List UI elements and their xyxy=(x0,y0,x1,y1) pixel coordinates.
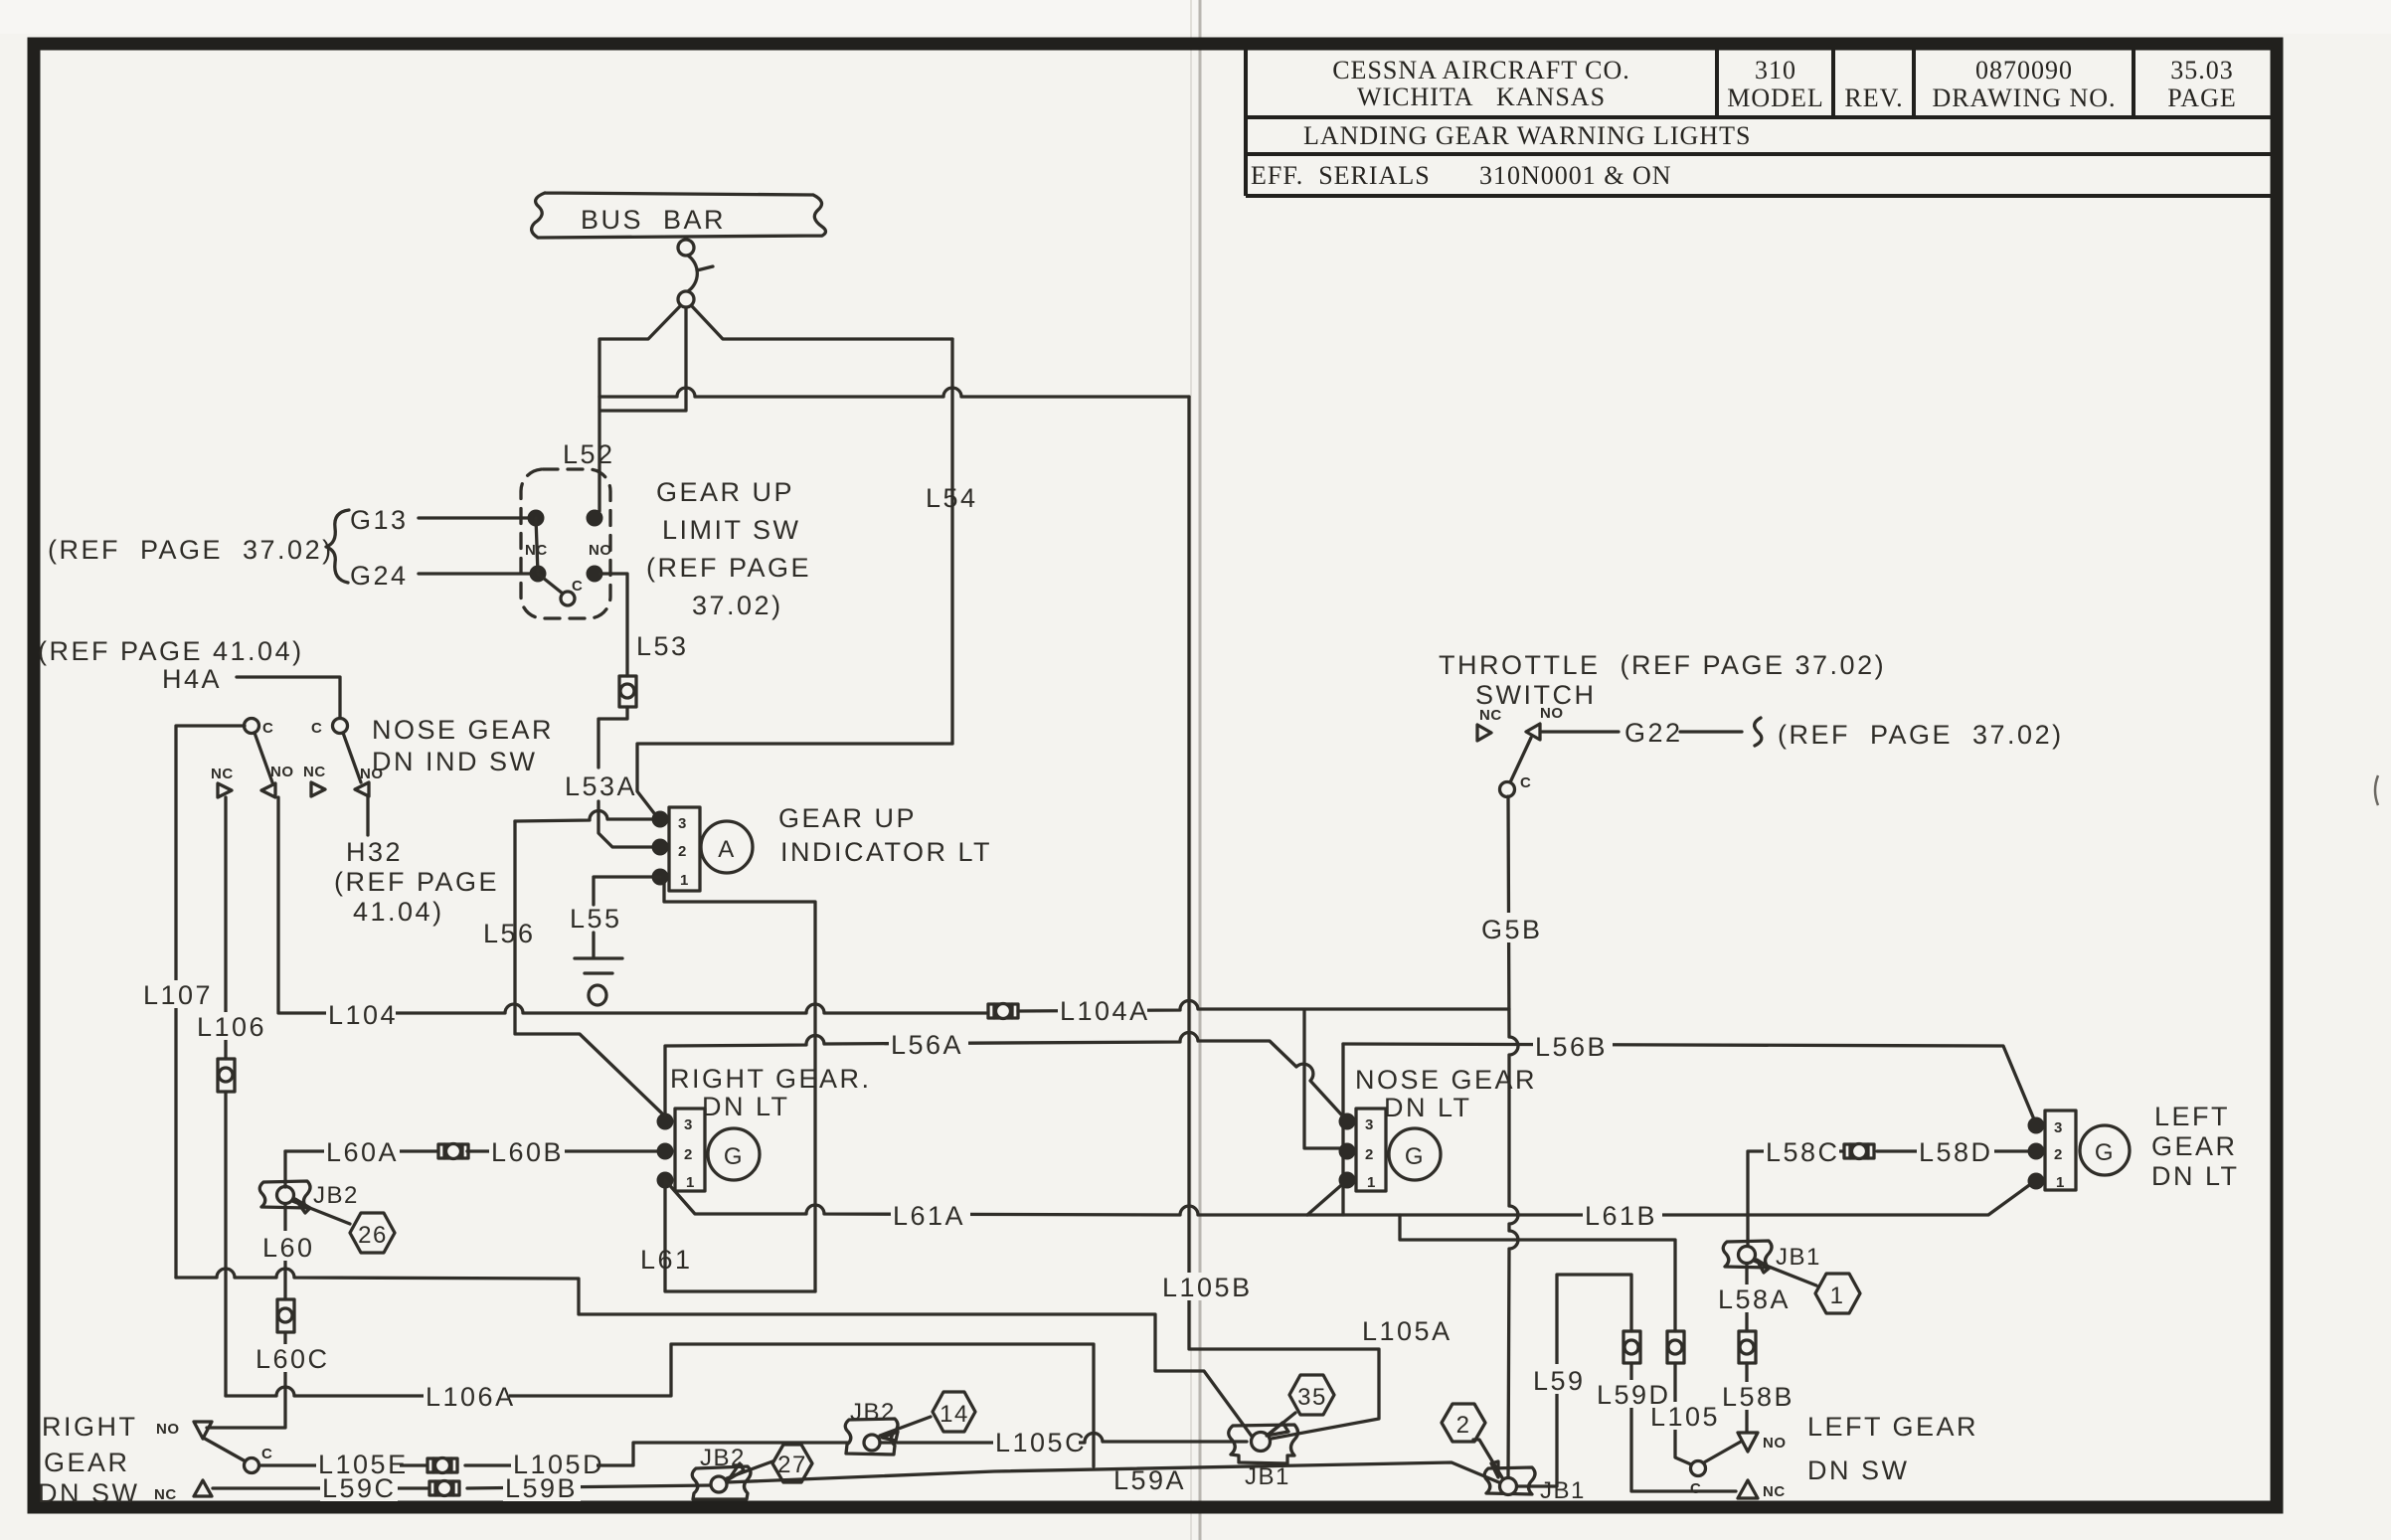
svg-text:H4A: H4A xyxy=(162,664,222,694)
svg-text:G24: G24 xyxy=(350,561,409,591)
svg-text:C: C xyxy=(311,720,322,737)
svg-text:GEAR: GEAR xyxy=(44,1448,130,1477)
label gear up indicator lt xyxy=(778,803,992,867)
pin 3 dot xyxy=(652,811,669,828)
wire L105C (hop over L106A drop) xyxy=(880,1434,1247,1443)
left gear sw arm xyxy=(1704,1442,1741,1462)
svg-text:2: 2 xyxy=(2054,1146,2063,1163)
label L60B xyxy=(489,1137,565,1167)
connector on L60 wire xyxy=(438,1144,468,1159)
svg-text:NC: NC xyxy=(154,1486,177,1503)
svg-text:1: 1 xyxy=(1367,1174,1376,1191)
wire L105E xyxy=(259,1443,849,1465)
hexagon 1 xyxy=(1815,1274,1860,1313)
nose gear pin1 tap diagonal xyxy=(1307,1180,1347,1215)
limit sw contact NO bottom xyxy=(587,566,603,583)
svg-text:L106: L106 xyxy=(197,1012,266,1042)
svg-text:A: A xyxy=(718,836,736,863)
svg-text:DN SW: DN SW xyxy=(38,1478,140,1508)
label nose gear dn ind sw xyxy=(372,715,554,776)
nose gear dn lt connector xyxy=(1356,1109,1386,1191)
wire L104 from NO left xyxy=(278,797,986,1013)
wire L59A to JB1 xyxy=(727,1462,1501,1483)
hexagon 14 xyxy=(933,1392,975,1432)
svg-text:G: G xyxy=(724,1143,744,1170)
junction block JB1 (2) xyxy=(1484,1467,1535,1495)
label L59 xyxy=(1531,1364,1593,1396)
throttle NO contact xyxy=(1526,705,1564,740)
svg-text:L104: L104 xyxy=(328,1000,398,1030)
NC contact left xyxy=(211,766,234,797)
label L105D xyxy=(511,1450,604,1479)
throttle C contact xyxy=(1500,774,1532,797)
wire L105 to C xyxy=(1675,1363,1691,1464)
svg-text:(REF PAGE 37.02): (REF PAGE 37.02) xyxy=(48,535,334,565)
label L59D xyxy=(1595,1380,1672,1410)
svg-text:NO: NO xyxy=(589,542,612,559)
svg-text:LANDING GEAR WARNING LIGHTS: LANDING GEAR WARNING LIGHTS xyxy=(1303,121,1751,150)
svg-text:G5B: G5B xyxy=(1481,915,1543,944)
svg-text:G22: G22 xyxy=(1624,718,1683,748)
svg-text:L59A: L59A xyxy=(1113,1465,1186,1495)
label L104A xyxy=(1058,996,1150,1026)
limit sw pole xyxy=(536,518,538,574)
wire L54 run to pin 3 xyxy=(637,744,952,813)
svg-text:MODEL: MODEL xyxy=(1727,84,1823,112)
svg-text:G: G xyxy=(1405,1143,1425,1170)
wire: bus center drop to horn node xyxy=(600,307,686,411)
svg-text:RIGHT GEAR.: RIGHT GEAR. xyxy=(670,1064,872,1094)
svg-text:L105A: L105A xyxy=(1362,1316,1452,1346)
svg-text:SWITCH: SWITCH xyxy=(1475,680,1596,710)
label L56B xyxy=(1533,1032,1613,1062)
svg-text:L105B: L105B xyxy=(1162,1273,1253,1302)
wire L53A to pin 2 xyxy=(598,801,654,847)
limit sw arm to C xyxy=(538,574,583,605)
svg-text:27: 27 xyxy=(777,1452,807,1478)
svg-text:NC: NC xyxy=(211,766,234,782)
svg-text:DN IND SW: DN IND SW xyxy=(372,747,538,776)
wire: long horn feed to L105B (hops over x690 and x958) xyxy=(599,388,1189,397)
pointer to hexagon 26 xyxy=(292,1201,350,1224)
svg-text:DN SW: DN SW xyxy=(1807,1455,1910,1485)
connector on L59C/B xyxy=(429,1481,459,1496)
wire JB2 up to L60A xyxy=(283,1151,286,1187)
left gear NC contact xyxy=(1738,1480,1786,1500)
label L60 xyxy=(260,1231,322,1263)
svg-text:(REF PAGE 37.02): (REF PAGE 37.02) xyxy=(1778,720,2064,750)
left gear C contact xyxy=(1690,1461,1706,1498)
svg-text:(REF PAGE 41.04): (REF PAGE 41.04) xyxy=(38,636,304,666)
label left gear dn lt xyxy=(2151,1102,2240,1191)
svg-text:1: 1 xyxy=(2056,1174,2065,1191)
left gear dn lt connector xyxy=(2045,1111,2076,1191)
break squiggle on G22 xyxy=(1755,718,1762,746)
NO contact left xyxy=(261,764,294,797)
wire L106 below fuse xyxy=(224,1092,227,1396)
svg-text:L107: L107 xyxy=(143,980,213,1010)
ind sw right C contact xyxy=(311,719,348,738)
fuse on L53 xyxy=(619,676,636,707)
nose pin 2 dot xyxy=(1339,1143,1356,1160)
pointer to hexagon 1 xyxy=(1754,1261,1816,1285)
lamp G right gear xyxy=(708,1128,760,1180)
nose pin 3 dot xyxy=(1339,1113,1356,1130)
svg-text:LEFT GEAR: LEFT GEAR xyxy=(1807,1412,1978,1442)
svg-text:(REF PAGE: (REF PAGE xyxy=(334,867,499,897)
label left gear dn sw xyxy=(1807,1412,1978,1485)
svg-text:C: C xyxy=(1690,1480,1701,1497)
svg-text:GEAR UP: GEAR UP xyxy=(656,477,794,507)
ind sw left arm xyxy=(255,733,272,782)
pointer to hexagon 14 xyxy=(880,1417,931,1436)
label right gear dn sw xyxy=(38,1412,140,1508)
wire: bus to L54 branch xyxy=(692,306,952,339)
title text: company xyxy=(1332,56,1630,111)
wire L59D to NC xyxy=(1631,1363,1736,1491)
wire G22 xyxy=(1542,730,1742,733)
wire L53 to L53A xyxy=(598,707,627,768)
svg-text:EFF. SERIALS: EFF. SERIALS xyxy=(1251,161,1431,190)
left gear pin 3 dot xyxy=(2028,1117,2045,1134)
svg-text:L52: L52 xyxy=(563,439,615,469)
svg-text:NO: NO xyxy=(270,764,294,780)
limit sw contact NO top xyxy=(587,510,603,527)
svg-text:PAGE: PAGE xyxy=(2167,84,2237,112)
right gear pin 2 dot xyxy=(657,1143,674,1160)
svg-text:G13: G13 xyxy=(350,505,409,535)
nose pin 1 dot xyxy=(1339,1172,1356,1189)
fuse on L60 xyxy=(277,1299,294,1332)
title text: page xyxy=(2167,56,2237,112)
svg-text:L54: L54 xyxy=(926,483,978,513)
junction block JB2 (14) xyxy=(845,1419,898,1454)
svg-text:L56B: L56B xyxy=(1535,1032,1608,1062)
svg-text:JB1: JB1 xyxy=(1540,1477,1586,1504)
label gear up limit sw xyxy=(646,477,811,620)
title text: eff serials xyxy=(1251,161,1672,190)
wire L60A/L60B into pin 2 xyxy=(285,1149,657,1152)
svg-text:35.03: 35.03 xyxy=(2170,56,2234,85)
pin 1 dot xyxy=(652,869,669,886)
label L104 xyxy=(326,999,398,1030)
svg-text:L59B: L59B xyxy=(505,1473,578,1503)
throttle arm xyxy=(1510,738,1531,782)
svg-text:L58D: L58D xyxy=(1919,1137,1993,1167)
svg-text:WICHITA KANSAS: WICHITA KANSAS xyxy=(1357,83,1606,111)
svg-text:L59C: L59C xyxy=(322,1473,397,1503)
wire L53 from limit sw xyxy=(600,574,627,676)
svg-text:L53A: L53A xyxy=(565,771,637,801)
svg-text:DN LT: DN LT xyxy=(2151,1161,2240,1191)
wire L56 top into pin 3 (hop over L53A) xyxy=(515,810,652,821)
svg-text:LEFT: LEFT xyxy=(2154,1102,2230,1131)
svg-text:L53: L53 xyxy=(636,631,689,661)
svg-text:DN LT: DN LT xyxy=(1384,1093,1472,1122)
svg-text:L105C: L105C xyxy=(995,1428,1087,1457)
svg-text:H32: H32 xyxy=(346,837,403,867)
svg-text:310: 310 xyxy=(1755,56,1796,85)
left gear pin 1 dot xyxy=(2028,1173,2045,1190)
wire G5B / L59 vertical with hops xyxy=(1508,796,1518,1479)
left gear NO contact xyxy=(1738,1433,1787,1452)
label L107 xyxy=(141,980,213,1010)
svg-text:GEAR: GEAR xyxy=(2151,1131,2238,1161)
svg-text:14: 14 xyxy=(939,1401,969,1428)
svg-text:3: 3 xyxy=(1365,1116,1374,1133)
connector on L105E/D xyxy=(427,1458,457,1473)
svg-text:C: C xyxy=(261,1446,272,1462)
svg-text:2: 2 xyxy=(684,1146,693,1163)
junction block JB2 (26) xyxy=(259,1181,310,1208)
wire L107 horizontal from left C xyxy=(176,726,245,1278)
brace for ref page xyxy=(326,510,349,583)
svg-text:26: 26 xyxy=(358,1222,388,1249)
svg-text:NO: NO xyxy=(156,1421,180,1438)
svg-text:L61A: L61A xyxy=(893,1201,965,1231)
svg-text:L60C: L60C xyxy=(256,1344,330,1374)
label H32 ref page xyxy=(334,837,499,927)
nose gear assembly box left edge xyxy=(1341,1044,1344,1215)
right gear C contact xyxy=(245,1446,273,1473)
svg-text:NO: NO xyxy=(1540,705,1564,722)
svg-text:NOSE GEAR: NOSE GEAR xyxy=(372,715,554,745)
svg-text:L59: L59 xyxy=(1533,1366,1586,1396)
nose gear box top edge / wire L56B (hop on vertical elsewhere) xyxy=(1343,1044,2034,1119)
svg-text:RIGHT: RIGHT xyxy=(42,1412,138,1442)
gear up limit switch (dashed case) xyxy=(521,469,610,618)
svg-text:NC: NC xyxy=(1763,1483,1786,1500)
hexagon 27 xyxy=(772,1445,812,1482)
svg-text:JB1: JB1 xyxy=(1245,1463,1290,1490)
wire L56 vertical xyxy=(515,821,662,1113)
svg-text:2: 2 xyxy=(678,843,687,860)
right gear NO contact xyxy=(156,1421,212,1439)
svg-text:NO: NO xyxy=(1763,1435,1787,1452)
hexagon 35 xyxy=(1289,1375,1334,1415)
title block frame xyxy=(1246,50,2271,196)
svg-text:JB1: JB1 xyxy=(1776,1244,1821,1271)
label L61B xyxy=(1583,1201,1662,1231)
junction block JB2 (27) xyxy=(692,1466,751,1499)
svg-text:JB2: JB2 xyxy=(850,1399,896,1426)
fuse on L105 xyxy=(1667,1331,1684,1363)
junction block JB1 (35) xyxy=(1229,1425,1298,1463)
svg-text:L59D: L59D xyxy=(1597,1380,1671,1410)
label L53A xyxy=(563,771,637,801)
lamp G left gear xyxy=(2080,1125,2130,1175)
pointer to hexagon 2 xyxy=(1473,1440,1503,1479)
NO contact right xyxy=(355,766,384,796)
wire G24 xyxy=(419,572,530,575)
fuse on L106 xyxy=(218,1059,235,1092)
svg-text:G: G xyxy=(2095,1139,2115,1166)
svg-text:1: 1 xyxy=(680,872,689,889)
wire: L54 vertical xyxy=(950,339,953,744)
wire L56A right gear to nose gear (hops x820, x1196) xyxy=(665,1033,1342,1115)
label L106A xyxy=(424,1382,516,1412)
right gear dn lt connector xyxy=(675,1109,705,1191)
NC wire L59C xyxy=(213,1485,711,1488)
label G5B xyxy=(1479,913,1543,944)
svg-text:NC: NC xyxy=(1479,707,1502,724)
svg-text:NC: NC xyxy=(303,764,326,780)
svg-text:3: 3 xyxy=(684,1116,693,1133)
wire pin1 elbow down right side xyxy=(664,883,815,1291)
right gear NC contact xyxy=(154,1480,212,1503)
ind sw left C contact xyxy=(245,719,274,738)
NC contact right xyxy=(303,764,326,796)
svg-text:L104A: L104A xyxy=(1060,996,1150,1026)
lamp G nose gear xyxy=(1389,1128,1441,1180)
svg-text:REV.: REV. xyxy=(1844,84,1903,112)
svg-text:L58C: L58C xyxy=(1766,1137,1840,1167)
wire L107 feed into JB1 35 (hops L106, L60) xyxy=(176,1269,1256,1442)
svg-text:L58A: L58A xyxy=(1718,1284,1791,1314)
wire L61A/L61B pin1 to pin1 (hops x820, x1196) xyxy=(665,1180,2032,1215)
label L105B xyxy=(1160,1273,1253,1302)
limit sw contact G24 xyxy=(530,566,547,583)
label L58A xyxy=(1716,1284,1797,1314)
svg-text:C: C xyxy=(572,578,583,595)
stray pen mark xyxy=(2375,775,2378,805)
svg-text:C: C xyxy=(1520,774,1531,791)
wire H32 stub xyxy=(366,796,369,835)
title text: model xyxy=(1727,56,1823,112)
label L58C xyxy=(1764,1137,1840,1167)
pin 2 dot xyxy=(652,839,669,856)
svg-text:3: 3 xyxy=(2054,1119,2063,1136)
label L105 xyxy=(1648,1402,1720,1432)
svg-text:L61: L61 xyxy=(640,1245,693,1275)
connector on L104A xyxy=(988,1004,1018,1019)
label L58B xyxy=(1720,1382,1799,1412)
label L60A xyxy=(324,1137,400,1167)
pointer to hexagon 27 xyxy=(727,1461,772,1478)
lamp A gear up indicator xyxy=(701,821,753,873)
svg-text:L58B: L58B xyxy=(1722,1382,1794,1412)
wire L58C corner and run xyxy=(1748,1151,2028,1247)
svg-text:L56: L56 xyxy=(483,919,536,948)
wire L58A down xyxy=(1745,1264,1748,1331)
right gear sw arm xyxy=(205,1439,246,1461)
bus bar xyxy=(532,193,826,238)
nose gear dn ind sw: H4A feed xyxy=(237,677,340,718)
ind sw right arm xyxy=(343,733,361,782)
svg-text:DRAWING NO.: DRAWING NO. xyxy=(1932,84,2116,112)
svg-text:L55: L55 xyxy=(570,904,622,934)
right gear pin 3 dot xyxy=(657,1113,674,1130)
wire L60C to NO xyxy=(207,1332,285,1428)
svg-text:2: 2 xyxy=(1365,1146,1374,1163)
svg-text:L61B: L61B xyxy=(1585,1201,1657,1231)
svg-text:L60B: L60B xyxy=(491,1137,564,1167)
svg-text:(REF PAGE: (REF PAGE xyxy=(646,553,811,583)
wire: bus to L52 branch xyxy=(599,306,680,511)
svg-text:INDICATOR LT: INDICATOR LT xyxy=(780,837,992,867)
throttle switch xyxy=(1439,650,1886,710)
label L105C xyxy=(993,1428,1087,1457)
fuse on L58A xyxy=(1739,1331,1756,1363)
left gear pin 2 dot xyxy=(2028,1143,2045,1160)
label L60C xyxy=(254,1344,333,1374)
svg-text:LIMIT SW: LIMIT SW xyxy=(662,515,801,545)
junction block JB1 for L58A xyxy=(1723,1241,1772,1268)
svg-text:37.02): 37.02) xyxy=(692,591,783,620)
throttle NC contact xyxy=(1477,707,1502,741)
label L59C xyxy=(320,1473,398,1503)
ground symbol xyxy=(575,933,622,1005)
svg-text:3: 3 xyxy=(678,815,687,832)
label L56A xyxy=(889,1030,968,1060)
right gear pin 1 dot xyxy=(657,1172,674,1189)
svg-text:JB2: JB2 xyxy=(313,1182,359,1209)
svg-text:310N0001 & ON: 310N0001 & ON xyxy=(1479,161,1672,190)
label L61A xyxy=(891,1201,970,1231)
wire L59 loop xyxy=(1516,1275,1631,1486)
label L59B xyxy=(503,1473,581,1503)
label nose gear dn lt xyxy=(1355,1065,1537,1122)
svg-text:L106A: L106A xyxy=(426,1382,516,1412)
label right gear dn lt xyxy=(670,1064,872,1121)
svg-text:1: 1 xyxy=(1830,1283,1845,1309)
label L106 xyxy=(195,1012,266,1042)
svg-text:DN LT: DN LT xyxy=(702,1092,790,1121)
svg-text:1: 1 xyxy=(686,1174,695,1191)
svg-text:2: 2 xyxy=(1456,1412,1471,1439)
wire L58B to NO xyxy=(1745,1363,1748,1432)
circuit breaker H at bus bar xyxy=(678,240,713,307)
wire L106A path xyxy=(226,1344,1094,1466)
page fold crease line xyxy=(1199,0,1202,1540)
title text: drawing no xyxy=(1932,56,2116,112)
svg-text:GEAR UP: GEAR UP xyxy=(778,803,917,833)
wire G13 xyxy=(419,516,528,519)
wire L60 down from JB2 xyxy=(283,1204,286,1299)
label L105E xyxy=(316,1450,409,1479)
svg-text:L60: L60 xyxy=(262,1233,315,1263)
wire L104A to throttle node (hop over L105B) xyxy=(1018,1001,1509,1148)
hexagon 2 xyxy=(1442,1404,1485,1442)
fuse on L59D xyxy=(1623,1331,1640,1363)
limit sw contact G13 xyxy=(528,510,545,527)
svg-text:41.04): 41.04) xyxy=(353,897,444,927)
wire L55 to ground xyxy=(594,877,660,905)
pointer to hexagon 35 xyxy=(1270,1413,1295,1434)
svg-text:CESSNA AIRCRAFT CO.: CESSNA AIRCRAFT CO. xyxy=(1332,56,1630,85)
svg-text:BUS BAR: BUS BAR xyxy=(581,205,726,235)
svg-text:L60A: L60A xyxy=(326,1137,399,1167)
svg-text:NC: NC xyxy=(525,542,548,559)
hexagon 26 xyxy=(350,1213,395,1253)
svg-text:0870090: 0870090 xyxy=(1975,56,2073,85)
wire: L105B vertical down fold xyxy=(1189,397,1379,1441)
svg-text:C: C xyxy=(262,720,273,737)
connector on L58 wire xyxy=(1844,1144,1874,1159)
wire L61 from pin1 down and around xyxy=(665,1180,815,1291)
wire L106 from NC left xyxy=(224,797,227,1059)
svg-text:35: 35 xyxy=(1297,1384,1327,1411)
gear up indicator connector xyxy=(669,807,700,891)
svg-text:THROTTLE (REF PAGE 37.02): THROTTLE (REF PAGE 37.02) xyxy=(1439,650,1886,680)
wire L105 tap from L61B xyxy=(1400,1215,1675,1331)
svg-text:L56A: L56A xyxy=(891,1030,963,1060)
label L58D xyxy=(1917,1137,1994,1167)
